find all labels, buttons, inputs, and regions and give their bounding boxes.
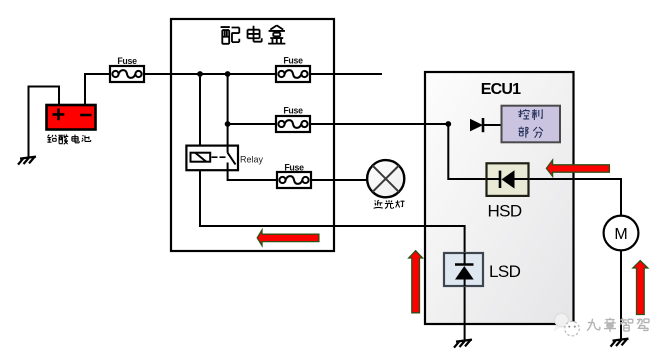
red arrow A1 return current in distribution box [257,230,319,246]
svg-text:HSD: HSD [488,202,522,221]
ground G2 LSD [454,340,472,348]
wire main feed F1 to F2 [144,73,276,75]
wire relay switch output to fuse F4 [228,170,277,180]
lamp label 近光灯 [374,200,405,208]
wire battery positive to ground [29,87,60,158]
red arrow A2 HSD current [546,160,609,176]
wire relay coil to LSD [200,161,465,253]
wire feed down to relay coil [199,74,201,153]
diode D1 [470,118,483,132]
wire LSD to ground [464,286,466,340]
fuse F2 [276,66,310,82]
svg-text:Fuse: Fuse [283,106,303,116]
wire diode D1 to control box [483,124,502,126]
control box 控制部分 [502,106,561,143]
HSD box [487,163,529,196]
wire feed down to relay switch [227,74,229,146]
svg-text:Relay: Relay [240,155,264,165]
svg-text:Fuse: Fuse [284,163,304,173]
svg-text:Fuse: Fuse [283,56,303,66]
ground G3 motor [611,339,629,347]
fuse F1 [110,66,144,82]
LSD box [444,253,483,286]
distribution box 配电盒 [171,19,334,251]
wire2 lighting feed to ECU [228,123,449,125]
wire battery negative to fuse F1 [85,74,110,105]
label 部分 [519,127,543,138]
battery label 铅酸电池 [47,134,90,144]
battery B1 [47,105,96,130]
junction dot A [197,71,203,77]
fuse F3 [276,116,310,132]
svg-text:ECU1: ECU1 [481,81,521,98]
junction dot B [225,71,231,77]
lamp 近光灯 [367,160,404,197]
label 控制 [518,109,542,120]
wire ECU dot down to HSD and out to motor [448,124,621,216]
wire fuse F4 to lamp [311,179,367,181]
motor M1 [604,216,639,251]
junction dot D [445,121,451,127]
wire stub after fuse F2 [310,73,382,75]
ground G1 battery [18,157,36,165]
svg-text:Fuse: Fuse [117,56,137,66]
wire motor to ground [620,250,622,339]
junction dot C [225,121,231,127]
watermark text 九章智驾 [587,318,649,332]
red arrow A3 LSD current up [409,251,423,313]
svg-text:M: M [614,226,627,243]
title 配电盒 [221,25,286,43]
watermark logo bubbles [553,313,579,336]
red arrow A4 motor current up [633,261,648,315]
relay K1 [186,146,238,171]
ECU1 box [425,72,574,324]
svg-text:LSD: LSD [489,262,521,281]
fuse F4 [277,172,311,188]
